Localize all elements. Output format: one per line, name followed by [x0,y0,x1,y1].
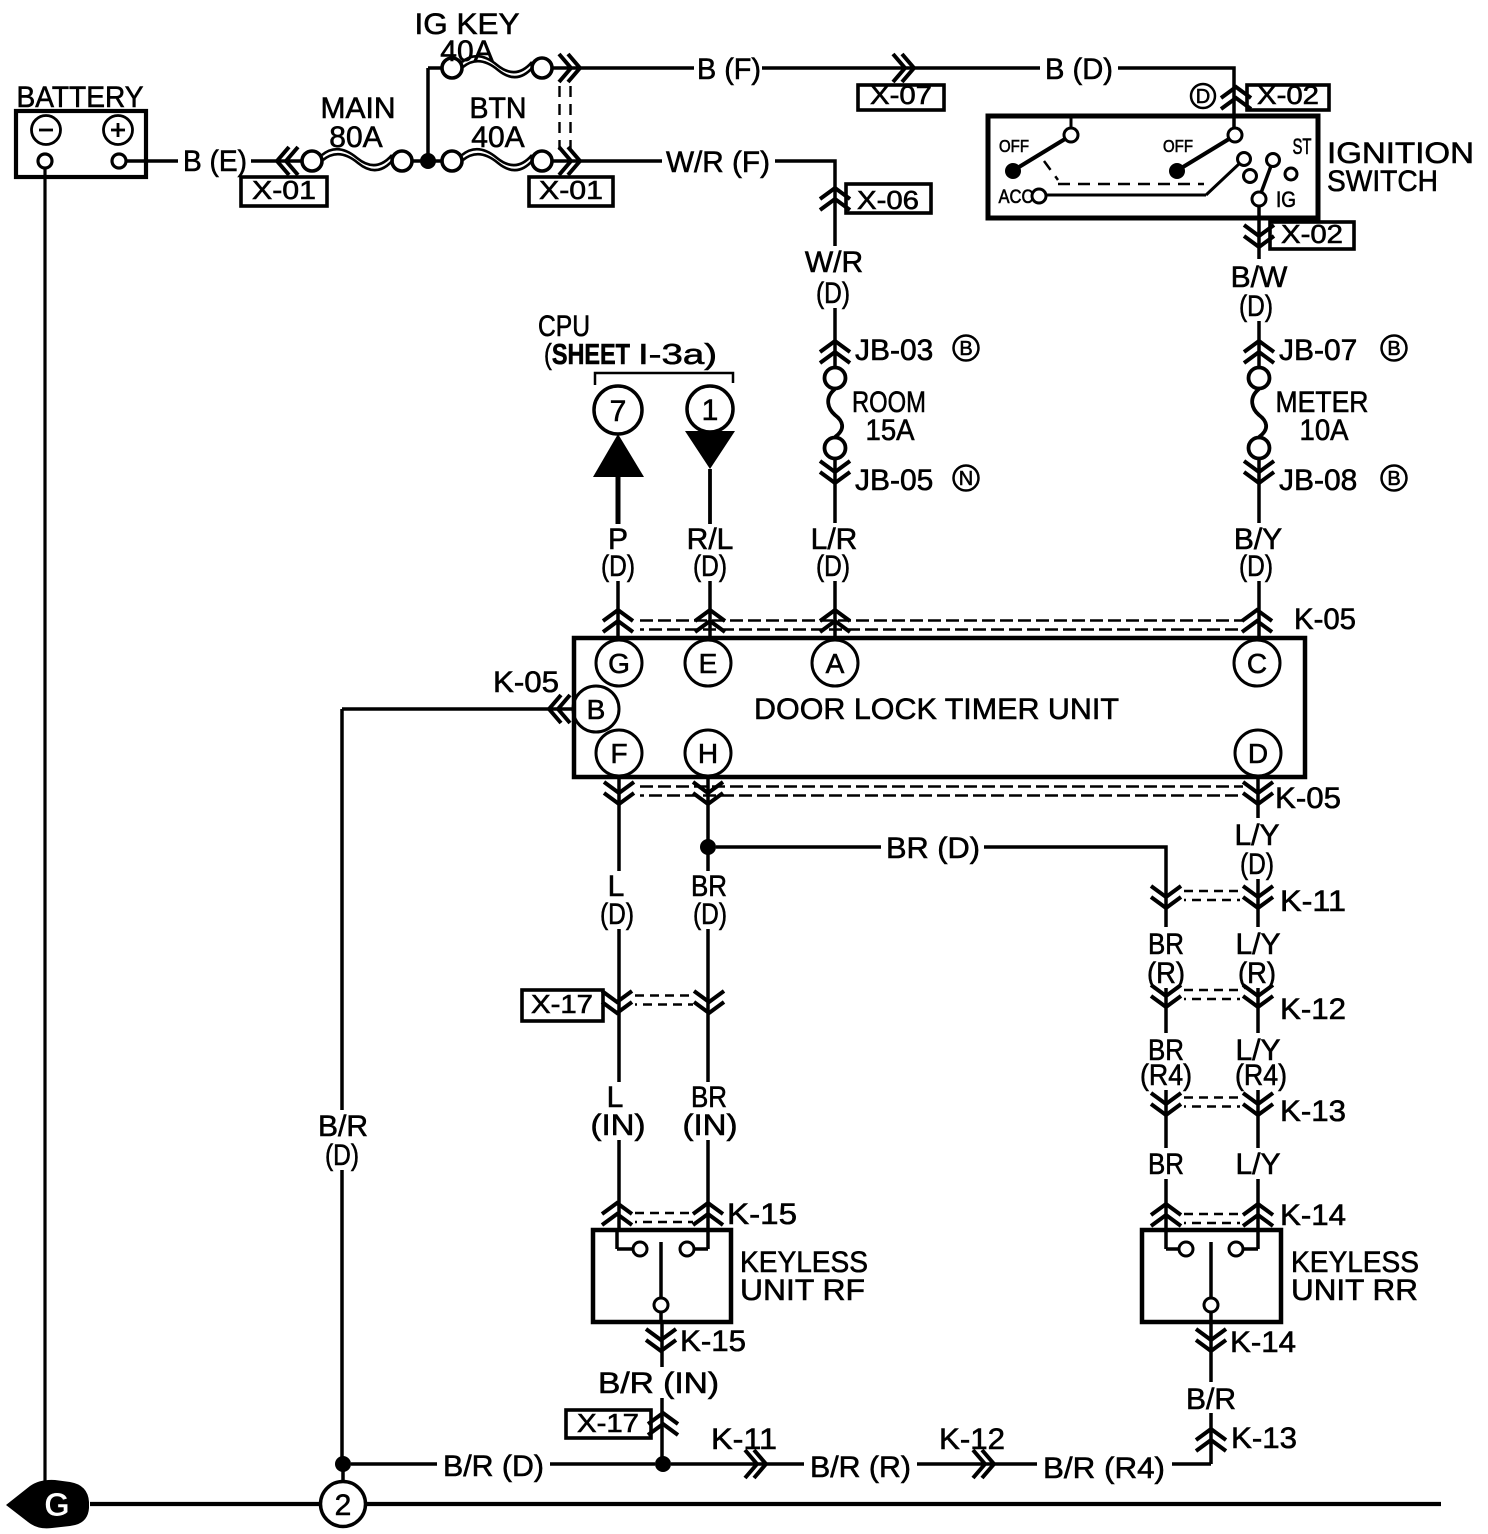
svg-text:B/R (R): B/R (R) [810,1451,911,1484]
svg-text:BR (D): BR (D) [886,832,980,865]
svg-text:(D): (D) [600,898,634,931]
svg-text:B/R (D): B/R (D) [443,1450,544,1483]
svg-text:D: D [1196,86,1210,108]
svg-text:SWITCH: SWITCH [1327,165,1438,198]
svg-text:C: C [1247,648,1267,679]
svg-text:X-06: X-06 [857,185,919,215]
svg-text:1: 1 [702,394,719,427]
svg-text:X-02: X-02 [1257,80,1319,110]
svg-text:JB-07: JB-07 [1279,334,1357,367]
svg-text:W/R (F): W/R (F) [666,146,770,179]
svg-text:X-17: X-17 [577,1408,639,1438]
svg-text:X-02: X-02 [1281,219,1343,249]
svg-text:X-07: X-07 [870,80,932,110]
svg-text:(D): (D) [816,277,850,310]
svg-text:B: B [1387,468,1400,490]
svg-text:X-01: X-01 [252,175,316,205]
svg-text:K-13: K-13 [1231,1422,1297,1455]
svg-text:(D): (D) [1240,848,1274,881]
svg-text:K-05: K-05 [1275,782,1341,815]
svg-text:K-11: K-11 [1280,885,1346,918]
svg-text:10A: 10A [1300,414,1349,447]
svg-text:E: E [699,648,718,679]
svg-text:K-15: K-15 [680,1325,746,1358]
svg-text:D: D [1248,738,1268,769]
svg-text:OFF: OFF [999,136,1029,156]
svg-text:B (D): B (D) [1045,53,1113,86]
svg-text:ST: ST [1293,134,1312,159]
svg-text:A: A [826,648,845,679]
svg-text:X-01: X-01 [539,175,603,205]
svg-text:K-12: K-12 [939,1423,1005,1456]
svg-text:K-05: K-05 [493,666,559,699]
svg-text:UNIT RR: UNIT RR [1291,1274,1418,1307]
svg-text:JB-05: JB-05 [855,464,933,497]
svg-text:F: F [610,738,627,769]
svg-text:H: H [698,738,718,769]
svg-text:OFF: OFF [1163,136,1193,156]
svg-text:K-14: K-14 [1280,1199,1346,1232]
svg-text:B: B [587,694,606,725]
svg-text:G: G [44,1486,70,1523]
svg-text:(R4): (R4) [1140,1059,1192,1092]
svg-text:X-17: X-17 [531,989,593,1019]
svg-text:B: B [1387,338,1400,360]
svg-text:K-05: K-05 [1294,603,1356,636]
svg-text:(D): (D) [1239,550,1273,583]
svg-text:40A: 40A [471,121,524,154]
svg-text:K-14: K-14 [1230,1326,1296,1359]
svg-text:(SHEET: (SHEET [544,339,630,371]
svg-text:L/Y: L/Y [1235,1148,1280,1181]
svg-text:N: N [959,468,973,490]
svg-text:2: 2 [335,1489,352,1522]
svg-text:B/R: B/R [1186,1383,1236,1416]
svg-text:B/R (IN): B/R (IN) [598,1367,719,1400]
svg-text:JB-08: JB-08 [1279,464,1357,497]
svg-text:7: 7 [610,395,627,428]
svg-text:K-15: K-15 [727,1198,797,1231]
svg-text:K-13: K-13 [1280,1095,1346,1128]
svg-text:40A: 40A [440,35,493,68]
svg-text:(IN): (IN) [591,1109,646,1142]
svg-text:IG: IG [1276,187,1296,212]
svg-text:(D): (D) [325,1139,359,1172]
svg-text:I-3a): I-3a) [638,339,717,371]
svg-text:K-11: K-11 [711,1423,777,1456]
svg-text:BATTERY: BATTERY [17,81,144,114]
svg-text:B (F): B (F) [697,53,761,86]
svg-text:W/R: W/R [805,246,863,279]
svg-text:(D): (D) [816,550,850,583]
svg-text:15A: 15A [866,414,915,447]
svg-text:G: G [608,648,630,679]
svg-text:B/R (R4): B/R (R4) [1043,1452,1165,1485]
svg-text:K-12: K-12 [1280,993,1346,1026]
svg-text:(D): (D) [693,550,727,583]
svg-text:(D): (D) [601,550,635,583]
svg-text:B: B [959,338,972,360]
svg-text:DOOR LOCK TIMER UNIT: DOOR LOCK TIMER UNIT [754,693,1119,726]
svg-text:UNIT RF: UNIT RF [740,1274,865,1307]
svg-text:(D): (D) [1239,290,1273,323]
svg-text:(D): (D) [693,898,727,931]
svg-text:JB-03: JB-03 [855,334,933,367]
svg-text:80A: 80A [329,121,382,154]
svg-text:(IN): (IN) [683,1109,738,1142]
svg-text:ACC: ACC [999,187,1034,208]
svg-text:(R4): (R4) [1235,1059,1287,1092]
svg-text:BR: BR [1148,1148,1184,1181]
svg-text:B (E): B (E) [183,145,247,178]
